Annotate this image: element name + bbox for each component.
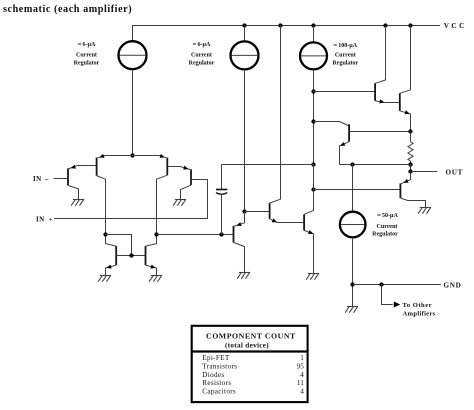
svg-text:≈ 50-µA: ≈ 50-µA <box>377 213 398 219</box>
current regulator CR1 (6-uA) symbol <box>119 41 147 69</box>
svg-text:To Other: To Other <box>403 302 433 309</box>
svg-text:Current: Current <box>76 52 97 58</box>
junction dot Q2 collector / mirror <box>103 232 107 236</box>
junction dot Q3 collector / mirror output <box>154 232 158 236</box>
arrowhead to other amplifiers <box>394 302 400 308</box>
label CR4 value <box>372 213 398 237</box>
svg-text:Regulator: Regulator <box>332 60 358 66</box>
current regulator CR3 (100-uA) symbol <box>300 42 327 69</box>
svg-text:≈ 100-µA: ≈ 100-µA <box>334 43 358 49</box>
current regulator CR4 (50-uA) symbol <box>340 212 366 238</box>
wire to other amplifiers <box>382 285 393 305</box>
svg-text:IN: IN <box>36 215 45 223</box>
label GND <box>444 281 462 289</box>
table row Transistors <box>202 362 304 370</box>
table row Epi-FET <box>202 354 304 362</box>
wire N2 line to Q13 base <box>314 189 401 191</box>
wire CR4 to ground <box>352 237 354 306</box>
wire resistor bottom to OUT node <box>410 165 412 172</box>
ground at Q4 collector <box>173 200 186 206</box>
svg-text:1: 1 <box>300 354 304 362</box>
input PNP Q1 (IN- follower) <box>68 165 97 200</box>
wire VCC to CR2 <box>244 26 246 42</box>
current regulator CR2 (6-uA) symbol <box>231 41 259 69</box>
svg-text:GND: GND <box>444 281 462 289</box>
svg-text:Resistors: Resistors <box>202 379 231 387</box>
current-limit NPN Q12 <box>340 124 411 164</box>
wire CR1 to input-pair emitter node <box>132 69 134 155</box>
table header (total device) <box>225 342 269 350</box>
svg-text:≈ 6-µA: ≈ 6-µA <box>193 42 211 48</box>
junction dot compensation cap tap <box>219 232 223 236</box>
table row Resistors <box>202 379 304 387</box>
table header COMPONENT COUNT <box>206 331 296 340</box>
svg-text:Regulator: Regulator <box>189 60 215 66</box>
PNP Q7 (to ground) <box>234 212 245 273</box>
current-mirror NPN Q6 <box>132 235 157 276</box>
Darlington NPN Q8 <box>270 26 305 223</box>
wire GND rail <box>353 284 441 286</box>
table row Capacitors <box>202 388 304 396</box>
ground at Q9 emitter <box>306 274 319 280</box>
wire IN+ to Q4 base <box>54 180 208 219</box>
wire output net to CR4 <box>352 165 354 212</box>
junction dot CR3 line / Q12 collector <box>311 119 315 123</box>
svg-text:Amplifiers: Amplifiers <box>403 310 436 317</box>
junction dot GND rail / to-other-amplifiers <box>379 282 383 286</box>
svg-text:Regulator: Regulator <box>74 60 100 66</box>
input PNP Q3 <box>133 154 168 235</box>
wire N2 to compensation cap <box>222 164 314 166</box>
wire OUT stub <box>411 171 438 173</box>
wire VCC rail <box>133 26 441 42</box>
table frame <box>192 326 308 402</box>
ground at Q1 collector <box>71 200 84 206</box>
junction dot on VCC rail (Q10 collector) <box>383 23 387 27</box>
label CR1 value <box>74 42 100 66</box>
label CR3 value <box>332 43 358 66</box>
wire CR3 to node N2 <box>313 69 315 164</box>
junction dot N2 line / Q13 base <box>311 187 315 191</box>
ground at CR4 <box>345 307 358 313</box>
svg-text:Epi-FET: Epi-FET <box>202 354 230 362</box>
ground at Q7 collector <box>237 273 250 279</box>
junction dot CR4 / output net <box>350 162 354 166</box>
current-mirror NPN Q5 <box>106 235 132 276</box>
label CR2 value <box>189 42 215 66</box>
junction dot mirror bases <box>129 253 133 257</box>
junction dot on VCC rail (CR2) <box>242 23 246 27</box>
svg-text:Diodes: Diodes <box>202 371 224 379</box>
wire output net <box>340 164 411 166</box>
output NPN Q10 <box>375 26 400 104</box>
wire CR3 node to Q10 base <box>314 91 376 93</box>
table separator line <box>191 350 309 352</box>
capacitor C1 (compensation) <box>216 165 227 235</box>
svg-text:IN: IN <box>33 175 42 183</box>
junction node N1 <box>242 209 246 213</box>
svg-text:schematic (each amplifier): schematic (each amplifier) <box>3 4 132 15</box>
junction dot resistor top / Q11 emitter <box>408 129 412 133</box>
label To Other Amplifiers <box>403 302 436 317</box>
junction dot on VCC rail (Q8 collector) <box>278 23 282 27</box>
wire CR2 to node N1 <box>244 69 246 211</box>
wire mirror output to Q7 base <box>157 234 234 236</box>
svg-text:Current: Current <box>377 224 398 230</box>
svg-text:–: – <box>44 175 49 183</box>
svg-text:COMPONENT COUNT: COMPONENT COUNT <box>206 331 296 340</box>
output PNP Q13 <box>400 172 425 208</box>
junction dot on VCC rail (CR3) <box>311 23 315 27</box>
svg-text:4: 4 <box>300 371 304 379</box>
junction dot OUT node <box>408 169 412 173</box>
wire N1 to Q8 base <box>245 211 270 213</box>
junction node N0 (input pair emitters) <box>130 153 134 157</box>
title text "schematic (each amplifier)" <box>3 4 132 15</box>
junction dot CR3 line / Q10 base <box>311 89 315 93</box>
svg-text:Regulator: Regulator <box>372 231 398 237</box>
svg-text:Capacitors: Capacitors <box>202 388 236 396</box>
label IN- <box>33 175 49 183</box>
svg-text:+: + <box>49 216 53 223</box>
ground at Q13 collector <box>418 208 431 214</box>
wire IN- to Q1 base <box>54 178 69 180</box>
svg-text:Current: Current <box>191 52 212 58</box>
wire VCC to CR3 <box>313 26 315 43</box>
wire mirror collector-base tie <box>106 235 132 256</box>
svg-text:VCC: VCC <box>444 22 467 30</box>
input PNP Q4 (IN+ follower) <box>167 166 191 200</box>
junction dot GND rail / CR4 <box>350 282 354 286</box>
label OUT <box>446 168 464 176</box>
wire CR3 line to Q12 collector <box>314 122 350 127</box>
output NPN Q11 <box>400 26 411 132</box>
svg-text:OUT: OUT <box>446 168 464 176</box>
junction dot resistor bottom / output net <box>408 162 412 166</box>
junction node N2 <box>311 162 315 166</box>
ground at Q5 emitter <box>98 276 111 282</box>
svg-text:(total device): (total device) <box>225 342 269 350</box>
svg-text:Current: Current <box>335 53 356 59</box>
svg-text:11: 11 <box>297 379 304 387</box>
input PNP Q2 <box>97 154 133 235</box>
svg-text:4: 4 <box>300 388 304 396</box>
ground at Q6 emitter <box>149 276 162 282</box>
Darlington NPN Q9 <box>304 165 313 274</box>
junction dot on VCC rail (Q11 collector) <box>408 23 412 27</box>
resistor RSC <box>408 132 413 165</box>
label IN+ <box>36 215 53 223</box>
svg-text:Transistors: Transistors <box>202 362 237 370</box>
svg-text:≈ 6-µA: ≈ 6-µA <box>78 42 96 48</box>
label VCC <box>444 22 467 30</box>
svg-text:95: 95 <box>297 362 305 370</box>
table row Diodes <box>202 371 304 379</box>
